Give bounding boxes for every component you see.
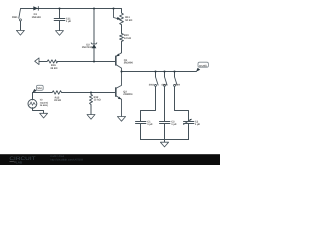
capacitor C1 — [136, 122, 146, 140]
wire pot to R10 — [121, 25, 123, 34]
node junction (SW4 tap) — [173, 70, 175, 72]
switch SW2 — [141, 72, 159, 122]
svg-text:12 kΩ: 12 kΩ — [124, 37, 131, 40]
svg-text:SW4: SW4 — [175, 83, 181, 86]
resistor R15 — [52, 91, 62, 95]
svg-text:2N3906: 2N3906 — [124, 62, 134, 65]
footer logo LAB — [10, 161, 16, 162]
svg-text:1 µF: 1 µF — [195, 123, 201, 126]
node flag (left input port) — [35, 58, 39, 65]
footer bar — [0, 154, 220, 165]
wire output rail — [122, 71, 197, 73]
wire top rail — [21, 8, 114, 10]
svg-text:Vin: Vin — [37, 87, 43, 90]
svg-text:12 kΩ: 12 kΩ — [94, 99, 101, 102]
ground (C11) — [56, 31, 64, 36]
switch SW3 — [164, 72, 168, 122]
svg-text:1 µF: 1 µF — [171, 123, 177, 126]
capacitor C11 — [54, 9, 65, 31]
wire rail to pot — [114, 9, 122, 14]
flag Vin tail — [32, 89, 36, 93]
ground (V2) — [40, 113, 48, 118]
ground (cap bank) — [160, 142, 168, 147]
node junction (R12 tap) — [90, 91, 92, 93]
Q1 emitter arrow (PNP) — [116, 54, 119, 57]
svg-text:SW3: SW3 — [161, 83, 167, 86]
wire R15 to Q2 base — [62, 92, 116, 94]
svg-text:16 kHz): 16 kHz) — [40, 104, 48, 107]
ground (Q2 emitter) — [117, 117, 125, 122]
node junction (C11 tap) — [58, 7, 60, 9]
svg-text:http://circuitlab.com/c/67B93: http://circuitlab.com/c/67B93 — [50, 159, 83, 162]
capacitor C2 — [160, 122, 170, 140]
transistor Q2 — [116, 72, 122, 117]
svg-text:50 kΩ: 50 kΩ — [125, 19, 132, 22]
node junction (D2 top rail tap) — [93, 7, 95, 9]
svg-text:1N4148: 1N4148 — [32, 16, 42, 19]
zener diode D2 wire top — [93, 9, 95, 44]
wire R10 to Q1 emitter — [121, 42, 123, 53]
node junction (SW3 tap) — [163, 70, 165, 72]
zener diode D2 body — [92, 44, 97, 48]
wire bottom rail — [141, 139, 189, 141]
pot wiper arrowhead — [117, 17, 121, 20]
resistor R16 — [47, 60, 57, 63]
transistor Q1 — [116, 53, 122, 72]
svg-text:SW1: SW1 — [12, 16, 18, 19]
svg-text:1N4733A: 1N4733A — [82, 46, 93, 49]
resistor R10 — [120, 33, 124, 41]
svg-text:2N3904: 2N3904 — [123, 93, 133, 96]
zener diode D2 wire bottom — [93, 48, 95, 61]
node junction (pot wiper) — [112, 7, 114, 9]
diode D1 — [33, 6, 38, 10]
node junction (collectors/output) — [120, 70, 122, 72]
trimmer cap C3 arrowhead — [190, 119, 192, 121]
flag Vout tail — [196, 68, 200, 72]
wire rail to ground — [164, 140, 166, 143]
wire V2 top / Q2 base — [33, 93, 53, 100]
node junction (D2 base tap) — [93, 60, 95, 62]
svg-text:1 µF: 1 µF — [66, 20, 72, 23]
resistor R12 — [90, 93, 93, 115]
svg-text:1 µF: 1 µF — [147, 123, 153, 126]
zener diode D2 bar — [91, 43, 97, 44]
svg-text:LAB: LAB — [16, 160, 23, 164]
capacitor C3 (trimmer) — [184, 119, 194, 139]
flag Vout — [198, 62, 208, 67]
svg-text:square(: square( — [40, 101, 49, 104]
svg-text:39 kΩ: 39 kΩ — [54, 99, 61, 102]
switch SW1 — [19, 9, 22, 30]
ground (SW1) — [16, 30, 24, 35]
voltage source V2 — [28, 99, 37, 108]
wire V2 bottom — [33, 108, 44, 114]
svg-text:out1: out1 — [199, 64, 208, 67]
wire flag to R16 — [39, 61, 47, 63]
ground (R12) — [87, 115, 95, 120]
svg-text:SW2: SW2 — [149, 83, 155, 86]
switch SW4 — [174, 72, 189, 122]
wire R16 to Q1 base — [58, 61, 116, 63]
potentiometer R11 — [114, 9, 124, 25]
flag Vin — [36, 85, 43, 90]
Q2 emitter arrow (NPN) — [118, 97, 121, 100]
svg-text:36 kΩ: 36 kΩ — [50, 67, 57, 70]
node junction (SW2 tap) — [154, 70, 156, 72]
